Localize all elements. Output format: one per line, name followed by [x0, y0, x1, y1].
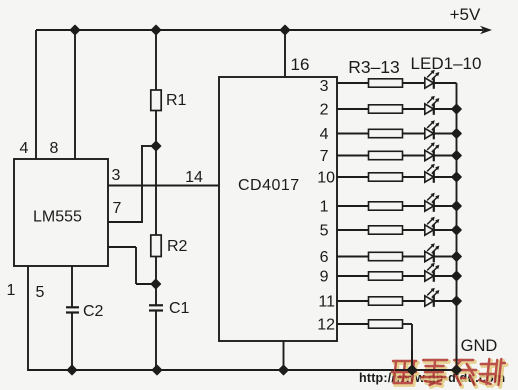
- resistor R5: [369, 129, 403, 137]
- wire resistor R12 to LED10: [403, 300, 425, 302]
- wire resistor R13 (pin 12) to ground rail: [403, 323, 413, 325]
- svg-text:8: 8: [50, 140, 59, 157]
- resistor R4: [369, 105, 403, 113]
- wire LED5 cathode to LED rail: [434, 176, 457, 178]
- resistor R10: [369, 252, 403, 260]
- svg-text:10: 10: [317, 170, 335, 187]
- node junction LED rail row 3: [452, 129, 461, 138]
- wire LED9 cathode to LED rail: [434, 275, 457, 277]
- wire CD4017 pin 7 to resistor R6: [337, 155, 369, 157]
- wire CD4017 pin 4 to resistor R5: [337, 133, 369, 135]
- svg-text:3: 3: [112, 167, 121, 184]
- resistor R7: [369, 173, 403, 181]
- wire LM555 pin 4 to +5V rail: [35, 30, 37, 159]
- wire resistor R9 to LED7: [403, 229, 425, 231]
- node junction LED rail row 2: [452, 104, 461, 113]
- wire CD4017 pin 3 to resistor R3: [337, 82, 369, 84]
- svg-text:4: 4: [20, 140, 29, 157]
- svg-text:1: 1: [320, 199, 329, 216]
- resistor R9: [369, 226, 403, 234]
- svg-text:11: 11: [318, 294, 335, 311]
- svg-text:5: 5: [320, 223, 329, 240]
- wire CD4017 pin 6 to resistor R10: [337, 256, 369, 258]
- op-amp U2 CD4017 decade counter IC body: [219, 77, 337, 341]
- node junction gnd / CD4017 pin 8: [279, 365, 288, 374]
- wire CD4017 pin 8 to ground: [283, 341, 285, 371]
- wire resistor R4 to LED2: [403, 108, 425, 110]
- LED2: [425, 96, 440, 115]
- node junction LED rail row 10: [452, 296, 461, 305]
- svg-text:LED1–10: LED1–10: [411, 54, 482, 73]
- node junction gnd / pin12 resistor (top): [407, 365, 416, 374]
- resistor R12: [369, 297, 403, 305]
- wire stub R1/R2 junction: [141, 145, 156, 147]
- node junction LED rail row 6: [452, 201, 461, 210]
- svg-text:3: 3: [320, 78, 329, 95]
- node junction top rail / pin 8: [70, 25, 79, 34]
- wire resistor R11 to LED9: [403, 275, 425, 277]
- svg-text:6: 6: [320, 249, 329, 266]
- node junction LED rail row 7: [452, 225, 461, 234]
- svg-text:C1: C1: [169, 300, 190, 317]
- wire LED4 cathode to LED rail: [434, 155, 457, 157]
- svg-text:C2: C2: [83, 303, 104, 320]
- wire CD4017 pin 5 to resistor R9: [337, 229, 369, 231]
- node junction top rail / R1: [151, 25, 160, 34]
- svg-text:7: 7: [320, 148, 329, 165]
- capacitor C2: [66, 306, 79, 308]
- LED8: [425, 243, 440, 262]
- LED5: [425, 164, 440, 183]
- node junction gnd / pin 12 resistor: [407, 365, 416, 374]
- node junction LED rail row 8: [452, 252, 461, 261]
- wire LED3 cathode to LED rail: [434, 133, 457, 135]
- svg-text:GND: GND: [461, 337, 498, 355]
- node junction LED rail row 5: [452, 172, 461, 181]
- svg-text:LM555: LM555: [33, 209, 82, 226]
- wire resistor R7 to LED5: [403, 176, 425, 178]
- wire LM555 pin 1 to ground rail: [27, 266, 29, 371]
- wire resistor R3 to LED1: [403, 82, 425, 84]
- svg-text:16: 16: [291, 55, 310, 74]
- LED3: [425, 120, 440, 139]
- wire resistor R5 to LED3: [403, 133, 425, 135]
- wire resistor R6 to LED4: [403, 155, 425, 157]
- svg-text:9: 9: [320, 269, 329, 286]
- node junction gnd / LED cathode rail: [452, 365, 461, 374]
- wire ground rail over watermark: [395, 369, 457, 371]
- wire LED cathode rail: [456, 83, 458, 370]
- svg-text:R1: R1: [166, 92, 187, 109]
- resistor R3: [369, 79, 403, 87]
- resistor R2: [155, 146, 157, 235]
- watermark red characters: [390, 359, 507, 387]
- svg-text:1: 1: [7, 282, 16, 299]
- LED10: [425, 288, 440, 307]
- wire LED10 cathode to LED rail: [434, 300, 457, 302]
- wire resistor R8 to LED6: [403, 205, 425, 207]
- LED6: [425, 193, 440, 212]
- node junction top rail / pin 16: [280, 25, 289, 34]
- svg-text:5: 5: [36, 284, 45, 301]
- node junction R2 / C1 / pins 2,6: [151, 279, 160, 288]
- svg-text:CD4017: CD4017: [238, 177, 300, 194]
- svg-text:14: 14: [185, 169, 203, 186]
- wire LM555 pin 5 to C2: [71, 266, 73, 307]
- capacitor C1: [155, 284, 157, 305]
- node junction gnd / C1: [152, 365, 161, 374]
- wire LED1 cathode to LED rail: [434, 82, 457, 84]
- LED7: [425, 217, 440, 236]
- wire resistor R10 to LED8: [403, 256, 425, 258]
- wire LM555 pin 8 to +5V rail: [74, 30, 76, 159]
- wire LED7 cathode to LED rail: [434, 229, 457, 231]
- +5V arrowhead: [480, 26, 492, 34]
- LED4: [425, 142, 440, 161]
- node junction gnd / LED rail (top): [452, 365, 461, 374]
- wire LED2 cathode to LED rail: [434, 108, 457, 110]
- wire CD4017 pin 12 to resistor R13: [337, 323, 369, 325]
- node junction gnd / C2: [67, 365, 76, 374]
- wire LED8 cathode to LED rail: [434, 256, 457, 258]
- svg-text:12: 12: [317, 317, 335, 334]
- svg-text:2: 2: [320, 102, 329, 119]
- wire LED6 cathode to LED rail: [434, 205, 457, 207]
- wire CD4017 pin 11 to resistor R12: [337, 300, 369, 302]
- node junction LED rail row 9: [452, 271, 461, 280]
- LED1: [425, 70, 440, 89]
- svg-text:R2: R2: [167, 238, 188, 255]
- wire CD4017 pin 16 to +5V rail: [284, 30, 286, 77]
- resistor R8: [369, 202, 403, 210]
- svg-text:R3–13: R3–13: [348, 57, 400, 77]
- wire ground bottom rail: [28, 369, 457, 371]
- LED9: [425, 263, 440, 282]
- wire CD4017 pin 9 to resistor R11: [337, 275, 369, 277]
- wire LM555 pin 3 output to CD4017 pin 14: [108, 185, 219, 187]
- node junction LED rail row 4: [452, 151, 461, 160]
- svg-text:+5V: +5V: [450, 5, 481, 24]
- wire LM555 pin 7 to R1/R2 junction: [108, 221, 142, 223]
- resistor R13: [369, 320, 403, 328]
- resistor R1: [155, 30, 157, 90]
- wire +5V top power rail: [36, 29, 483, 31]
- svg-text:4: 4: [320, 126, 329, 143]
- wire CD4017 pin 10 to resistor R7: [337, 176, 369, 178]
- node junction R1 / R2 / pin 7: [151, 141, 160, 150]
- wire LM555 pins 2/6 to R2/C1 junction: [108, 246, 136, 248]
- op-amp U1 LM555 timer IC body: [14, 159, 108, 266]
- resistor R6: [369, 151, 403, 159]
- wire CD4017 pin 1 to resistor R8: [337, 205, 369, 207]
- wire CD4017 pin 2 to resistor R4: [337, 108, 369, 110]
- svg-text:7: 7: [113, 200, 122, 217]
- resistor R11: [369, 272, 403, 280]
